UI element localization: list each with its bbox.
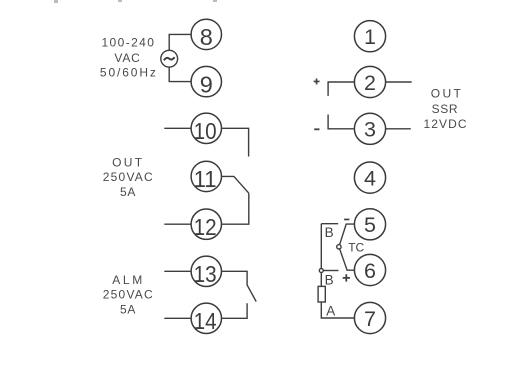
serif feet of digits 1 in 11 (196, 185, 202, 187)
svg-text:7: 7 (364, 307, 376, 331)
wire relay blade to terminal 12 (222, 193, 249, 224)
svg-text:B: B (325, 225, 334, 240)
serif foot of digit 1 in 13 (196, 280, 202, 282)
alarm contact blade from terminal 13 (222, 271, 257, 301)
wire stub left of terminal 13 (164, 270, 191, 272)
svg-text:50/60Hz: 50/60Hz (100, 66, 156, 80)
svg-text:4: 4 (364, 166, 376, 190)
svg-text:OUT: OUT (431, 87, 462, 101)
svg-text:12: 12 (194, 214, 217, 240)
serif foot of digit 1 in 12 (196, 233, 202, 235)
thermocouple minus lead to terminal 5 (339, 224, 355, 247)
minus sign at terminal 5 (344, 219, 349, 221)
serif foot of digit 1 in 14 (196, 327, 202, 329)
cropped text specks at top edge (54, 0, 217, 3)
svg-text:11: 11 (194, 166, 217, 192)
wire AC source to terminal 9 (169, 67, 191, 82)
terminal 13 (191, 256, 221, 286)
terminal 8 (191, 19, 221, 49)
svg-text:B: B (325, 272, 334, 287)
terminal 3 (354, 113, 385, 144)
resistor (RTD lead resistance) (318, 286, 325, 302)
RTD B rail vertical wire (320, 224, 322, 287)
wire terminal 10 to relay NO contact (222, 128, 249, 156)
svg-text:100-240: 100-240 (101, 36, 154, 50)
terminal 11 (191, 161, 221, 191)
terminal 4 (354, 162, 385, 193)
svg-text:ALM: ALM (112, 273, 142, 287)
terminal 1 (354, 21, 385, 52)
svg-text:1: 1 (364, 25, 376, 49)
RTD B rail junction to terminal 6 wire (323, 270, 338, 272)
svg-text:5A: 5A (120, 302, 136, 316)
serif foot of digit 1 in 10 (196, 137, 202, 139)
plus sign at terminal 6 (343, 274, 350, 281)
wire stub left of terminal 14 (164, 317, 191, 319)
svg-text:3: 3 (364, 118, 376, 142)
wire stub left of terminal 12 (164, 223, 191, 225)
svg-text:SSR: SSR (432, 102, 458, 116)
polarity and wire name labels (314, 79, 365, 319)
RTD B rail top wire (321, 223, 338, 225)
wire terminal 8 to AC source (169, 34, 191, 50)
svg-text:14: 14 (194, 308, 217, 334)
terminal 2 (354, 66, 385, 97)
node TC (337, 245, 341, 249)
svg-text:6: 6 (364, 259, 376, 283)
svg-text:10: 10 (194, 118, 217, 144)
serif foot of digit 1 in terminal 1 (367, 43, 372, 45)
wire stub left of terminal 10 (164, 127, 191, 129)
AC source tilde (164, 57, 175, 60)
wire resistor to terminal 7 (321, 302, 354, 318)
thermocouple plus lead to terminal 6 (339, 247, 355, 270)
AC source symbol circle (161, 50, 178, 67)
terminal 7 (354, 302, 385, 333)
svg-text:9: 9 (200, 71, 213, 97)
plus sign at terminal 2 (314, 79, 320, 85)
svg-text:A: A (326, 303, 335, 318)
terminal 12 (191, 209, 221, 239)
terminal 9 (191, 66, 221, 96)
svg-text:12VDC: 12VDC (424, 117, 467, 131)
wire stub right of terminal 3 (386, 128, 411, 130)
terminal 10 (191, 113, 221, 143)
wire stub right of terminal 2 (386, 81, 412, 83)
wire SSR minus to terminal 3 (328, 115, 354, 129)
svg-text:OUT: OUT (112, 156, 143, 170)
svg-text:5A: 5A (120, 185, 136, 199)
terminal circles (191, 19, 386, 333)
minus sign at terminal 3 (314, 128, 319, 130)
svg-text:250VAC: 250VAC (103, 170, 153, 184)
svg-text:TC: TC (348, 241, 364, 255)
svg-text:5: 5 (364, 213, 376, 237)
terminal 6 (354, 254, 385, 285)
svg-text:2: 2 (364, 71, 376, 95)
wire SSR plus to terminal 2 (328, 82, 354, 96)
svg-text:250VAC: 250VAC (103, 288, 153, 302)
terminal numbers (194, 24, 376, 334)
svg-text:13: 13 (194, 261, 217, 287)
terminal 14 (191, 303, 221, 333)
svg-text:8: 8 (200, 24, 213, 50)
terminal 5 (354, 209, 385, 240)
svg-text:VAC: VAC (114, 51, 140, 65)
relay blade from terminal 11 (222, 176, 249, 193)
wire terminal 14 to alarm contact (222, 303, 248, 318)
node junction B (319, 269, 323, 273)
